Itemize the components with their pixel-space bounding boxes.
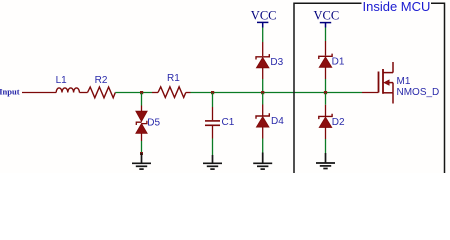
svg-text:VCC: VCC — [251, 8, 277, 22]
ground below D4 — [253, 153, 272, 170]
wire R1 to gate — [191, 92, 363, 94]
wire D3 to node — [262, 68, 264, 79]
diode D1 (schottky to VCC) — [319, 54, 332, 59]
svg-text:R2: R2 — [95, 75, 108, 86]
TVS diode D5 — [136, 111, 147, 121]
resistor R2 — [88, 87, 116, 98]
svg-text:VCC: VCC — [314, 8, 340, 22]
wire VCC to D3 — [262, 28, 264, 43]
junction node A — [140, 91, 143, 94]
wire node C down to D4 — [262, 93, 264, 105]
svg-text:D3: D3 — [270, 57, 283, 68]
svg-text:C1: C1 — [222, 117, 235, 128]
wire L1 to R2 — [79, 92, 87, 94]
junction node C — [261, 91, 264, 94]
svg-text:D1: D1 — [332, 57, 345, 68]
wire C1 to ground — [212, 126, 214, 139]
ground below D2 — [316, 153, 335, 169]
svg-text:D4: D4 — [271, 116, 284, 127]
ground below D5 — [132, 153, 151, 169]
M1 body arrow — [384, 80, 389, 85]
capacitor C1 — [205, 120, 220, 122]
wire D4 to ground — [262, 127, 264, 138]
svg-text:Input: Input — [0, 87, 20, 97]
wire D5 to ground — [141, 133, 143, 141]
wire R2 to node A — [115, 92, 152, 94]
transistor M1 gate pin — [362, 92, 379, 94]
Inside MCU label — [362, 0, 432, 12]
junction node D — [324, 91, 327, 94]
svg-text:L1: L1 — [56, 75, 68, 86]
junction dot at ground — [140, 152, 143, 155]
wire VCC to D1 — [325, 28, 327, 42]
svg-text:D2: D2 — [332, 117, 345, 128]
wire D1 to node — [325, 67, 327, 79]
diode D3 (schottky to VCC) — [256, 54, 269, 59]
svg-text:M1: M1 — [397, 76, 411, 87]
transistor M1 — [379, 62, 394, 104]
ground below C1 — [203, 155, 222, 169]
inductor L1 — [56, 88, 79, 93]
svg-text:D5: D5 — [147, 117, 160, 128]
wire node D down to D2 — [325, 93, 327, 105]
svg-text:NMOS_D: NMOS_D — [397, 87, 440, 98]
diode D4 (schottky to ground) — [256, 113, 269, 118]
junction node B (C1) — [211, 91, 214, 94]
svg-text:R1: R1 — [167, 73, 180, 84]
MCU boundary box — [294, 3, 445, 173]
svg-text:Inside MCU: Inside MCU — [363, 0, 431, 14]
wire input to L1 — [22, 92, 56, 94]
wire D2 to ground — [325, 128, 327, 140]
wire node A down to D5 — [141, 93, 143, 106]
resistor R1 — [152, 92, 158, 94]
diode D2 (schottky to ground) — [319, 114, 332, 119]
wire node B down to C1 — [212, 93, 214, 107]
